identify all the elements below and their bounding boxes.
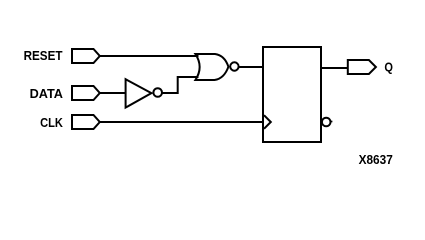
- flip-flop side bubble: [322, 118, 331, 127]
- input tag DATA: [72, 86, 100, 100]
- svg-text:CLK: CLK: [40, 115, 63, 130]
- flip-flop U2 body: [263, 47, 321, 142]
- wire NOR to flip-flop D input: [239, 66, 262, 68]
- NOR gate G1 body: [195, 54, 228, 80]
- flip-flop bubble stub: [331, 121, 332, 123]
- svg-text:DATA: DATA: [30, 86, 64, 101]
- wire DATA to inverter: [99, 92, 126, 94]
- svg-text:Q: Q: [384, 59, 393, 74]
- output tag Q: [348, 60, 376, 74]
- wire inverter to NOR bottom input: [162, 77, 199, 93]
- input tag CLK: [72, 115, 100, 129]
- inverter U1 triangle: [126, 79, 152, 107]
- svg-text:RESET: RESET: [24, 48, 63, 63]
- svg-text:X8637: X8637: [359, 152, 393, 167]
- input tag RESET: [72, 49, 100, 63]
- wire flip-flop Q output: [321, 67, 348, 69]
- flip-flop clock triangle: [264, 115, 271, 129]
- wire RESET to NOR top input: [99, 55, 199, 57]
- wire CLK to flip-flop: [99, 121, 262, 123]
- NOR gate G1 output bubble: [230, 62, 238, 70]
- inverter U1 output bubble: [153, 88, 162, 97]
